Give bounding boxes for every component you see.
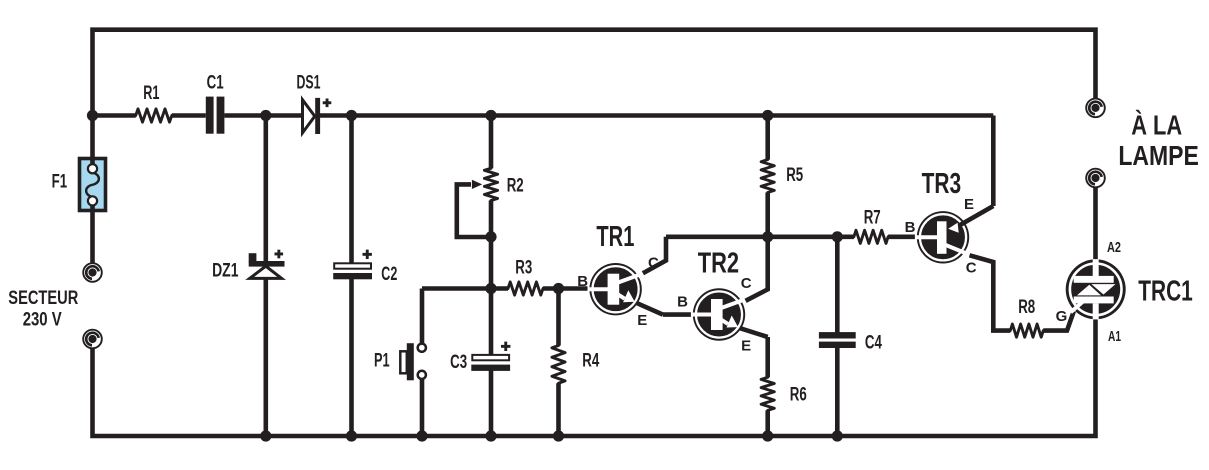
wire: left drop from R1 node to fuse xyxy=(90,116,95,159)
wire: TR2 collector riser xyxy=(746,237,768,301)
svg-text:B: B xyxy=(677,294,688,311)
terminal SECTEUR lower xyxy=(83,330,102,349)
wire: main row y=115.5 from R1 node to C1 xyxy=(93,113,994,118)
node at 491,288.5 xyxy=(485,283,496,294)
svg-text:C: C xyxy=(741,275,752,292)
svg-text:R7: R7 xyxy=(864,207,881,228)
zener DZ1 plus sign xyxy=(275,250,284,259)
transistor TR1 (NPN) xyxy=(589,263,663,315)
svg-text:C: C xyxy=(966,260,977,277)
node at 92.5,115.5 xyxy=(87,110,98,121)
wire: C4 branch xyxy=(835,237,840,436)
wire: top rail with left and right drops xyxy=(93,30,1096,116)
node at 491,436 xyxy=(485,430,496,441)
svg-text:TR1: TR1 xyxy=(596,221,634,253)
svg-text:B: B xyxy=(577,273,588,290)
fuse F1 xyxy=(80,158,106,211)
wire: R2 wiper bracket xyxy=(457,182,491,237)
wire: SECTEUR bottom terminal to bottom rail, bottom rail, TRC1 A1 drop xyxy=(93,319,1096,436)
svg-text:SECTEUR: SECTEUR xyxy=(8,288,78,309)
capacitor C1 xyxy=(206,97,225,134)
resistor R6 xyxy=(761,377,774,410)
wire: DZ1 branch xyxy=(263,116,268,437)
svg-text:R6: R6 xyxy=(790,385,807,406)
svg-text:TR2: TR2 xyxy=(698,248,739,280)
svg-text:A1: A1 xyxy=(1108,328,1121,345)
svg-text:230 V: 230 V xyxy=(23,310,62,331)
zener diode DZ1 xyxy=(249,253,285,278)
wire: fuse bottom to SECTEUR top terminal xyxy=(90,211,95,264)
node at 422,436 xyxy=(416,430,427,441)
capacitor C3 (electrolytic) xyxy=(471,355,510,371)
capacitor C2 (electrolytic) xyxy=(333,263,372,279)
resistor R7 xyxy=(854,230,888,243)
resistor R4 xyxy=(552,346,565,384)
node at 491,115.5 xyxy=(485,110,496,121)
diode DS1 xyxy=(303,98,321,134)
pushbutton P1 xyxy=(400,343,426,380)
potentiometer R2 wiper arrow xyxy=(472,180,482,189)
node at 767.7,115.5 xyxy=(762,110,773,121)
node at 767.7,236.8 xyxy=(762,231,773,242)
svg-text:DS1: DS1 xyxy=(297,73,321,94)
capacitor C2 plus sign xyxy=(363,250,372,259)
wire: P1 branch xyxy=(420,289,425,437)
svg-text:A2: A2 xyxy=(1107,239,1121,256)
wire: TR3 collector down to R8 row xyxy=(970,255,1011,330)
svg-text:DZ1: DZ1 xyxy=(212,260,239,281)
wire: C2 branch xyxy=(349,116,354,437)
wire: R2 branch vertical xyxy=(489,116,494,289)
node at 351.5,115.5 xyxy=(346,110,357,121)
potentiometer R2 (zigzag) xyxy=(484,168,497,200)
svg-text:C: C xyxy=(648,255,659,272)
capacitor C3 plus sign xyxy=(501,342,510,351)
node at 265.8,115.5 xyxy=(260,110,271,121)
svg-text:G: G xyxy=(1056,308,1068,325)
svg-text:F1: F1 xyxy=(52,171,68,192)
terminal lamp lower xyxy=(1086,169,1105,188)
svg-text:E: E xyxy=(637,312,647,329)
wire: right end of main row down to TR3 emitter xyxy=(991,116,996,207)
wire: TR2 emitter to R6 xyxy=(765,337,770,436)
svg-text:E: E xyxy=(741,338,751,355)
node at 558.5,436 xyxy=(553,430,564,441)
wire: C3 branch xyxy=(489,289,494,437)
svg-text:R5: R5 xyxy=(786,165,803,186)
svg-text:LAMPE: LAMPE xyxy=(1118,140,1199,171)
svg-text:C1: C1 xyxy=(207,73,224,94)
node at 351.5,436 xyxy=(346,430,357,441)
resistor R1 xyxy=(136,109,172,122)
transistor TR3 (PNP) xyxy=(916,206,993,264)
wire: LAMPE lower terminal to TRC1 A2 xyxy=(1093,187,1098,259)
resistor R5 xyxy=(761,160,774,193)
node at 767.7,436 xyxy=(762,430,773,441)
wire: R4 branch xyxy=(556,289,561,437)
svg-text:À LA: À LA xyxy=(1131,109,1182,140)
capacitor C4 xyxy=(819,332,856,348)
svg-text:C2: C2 xyxy=(381,264,397,285)
wire: R5 branch vertical xyxy=(765,116,770,237)
svg-text:B: B xyxy=(905,219,916,236)
node at 837.3,436 xyxy=(832,430,843,441)
svg-text:P1: P1 xyxy=(374,350,390,371)
terminal lamp upper xyxy=(1086,99,1105,118)
node at 265.8,436 xyxy=(260,430,271,441)
svg-text:TR3: TR3 xyxy=(922,168,962,200)
node at 558.5,288.5 xyxy=(553,283,564,294)
svg-text:R1: R1 xyxy=(143,83,159,104)
svg-text:R2: R2 xyxy=(507,176,524,197)
wire: R8 right to TRC1 gate xyxy=(1043,311,1074,330)
resistor R8 xyxy=(1010,324,1043,337)
node at 837.3,236.8 xyxy=(832,231,843,242)
svg-text:C4: C4 xyxy=(865,332,882,353)
wire: row2 TR1 collector rail to TR3 base xyxy=(666,235,915,240)
svg-text:R3: R3 xyxy=(515,258,532,279)
svg-text:R8: R8 xyxy=(1018,297,1035,318)
node at 491,236.8 xyxy=(485,231,496,242)
wire: TR1 collector drop xyxy=(643,237,666,273)
triac TRC1 xyxy=(1066,259,1126,319)
diode DS1 plus sign xyxy=(323,99,332,108)
wire: row3 base row of TR1 with P1 tap xyxy=(422,286,588,291)
svg-text:E: E xyxy=(964,196,974,213)
transistor TR2 (NPN) xyxy=(692,288,768,340)
svg-text:R4: R4 xyxy=(582,351,599,372)
wire: TR1 emitter to TR2 base xyxy=(663,312,691,317)
terminal SECTEUR upper xyxy=(83,263,102,282)
svg-text:TRC1: TRC1 xyxy=(1138,276,1193,308)
resistor R3 xyxy=(508,282,543,295)
svg-text:C3: C3 xyxy=(450,352,467,373)
